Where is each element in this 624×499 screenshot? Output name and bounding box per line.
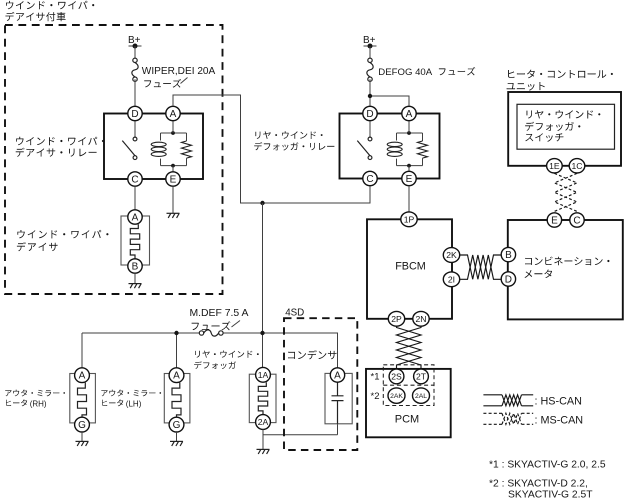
ground (mirror RH) xyxy=(76,441,89,446)
wire: wiper relay A to defog relay C feed xyxy=(173,95,370,203)
pin A (mirror RH) xyxy=(75,368,90,383)
wire B to ground xyxy=(134,273,136,283)
pin 1C xyxy=(569,159,585,173)
module box: combination meter xyxy=(508,220,623,319)
svg-text:A: A xyxy=(406,109,413,120)
svg-text:A: A xyxy=(79,371,86,382)
svg-text:SKYACTIV-G 2.5T: SKYACTIV-G 2.5T xyxy=(508,489,593,499)
svg-text:WIPER,DEI 20A: WIPER,DEI 20A xyxy=(142,66,216,77)
capacitor: condenser xyxy=(325,373,352,423)
svg-text:2T: 2T xyxy=(416,371,427,381)
pin C (meter) xyxy=(570,213,584,227)
pin E (defog relay) xyxy=(402,171,416,185)
pin 2P xyxy=(388,311,404,326)
svg-text:D: D xyxy=(131,109,138,120)
ground (wiper relay E) xyxy=(167,213,180,218)
svg-text:A: A xyxy=(334,371,341,382)
svg-text:1A: 1A xyxy=(258,370,269,380)
relay switch contacts xyxy=(122,137,137,159)
svg-text:A: A xyxy=(173,371,180,382)
svg-text:2N: 2N xyxy=(416,314,427,324)
wire 2A to ground and condenser xyxy=(263,424,338,449)
label: heater control unit xyxy=(507,70,613,91)
wire E to ground xyxy=(172,186,174,213)
pin A (defog relay) xyxy=(402,106,416,120)
label: M.DEF 7.5 A fuse xyxy=(190,308,249,330)
svg-text:: MS-CAN: : MS-CAN xyxy=(535,414,584,426)
dashed enclosure: 4SD xyxy=(284,318,357,450)
ground (rear defogger) xyxy=(257,449,270,454)
junction node (LH heater) xyxy=(174,331,178,335)
relay coil and resistor U1 xyxy=(135,121,192,172)
module box: heater control unit xyxy=(508,92,621,166)
relay coil and resistor U2 xyxy=(370,121,428,172)
pin 2K xyxy=(443,248,459,263)
wire G to ground (RH) xyxy=(81,432,83,441)
svg-text:C: C xyxy=(131,175,138,186)
svg-text:1P: 1P xyxy=(404,214,415,224)
svg-text:2I: 2I xyxy=(448,274,455,284)
pin G (mirror RH) xyxy=(75,417,90,432)
junction node xyxy=(260,201,264,205)
svg-text:*2 : SKYACTIV-D 2.2,: *2 : SKYACTIV-D 2.2, xyxy=(489,478,588,489)
svg-text:*1: *1 xyxy=(371,372,380,383)
pin C (wiper relay) xyxy=(128,172,142,186)
pin 2AL xyxy=(413,388,430,403)
wire E to 1P xyxy=(408,186,410,212)
wire C to deicer A xyxy=(134,186,136,210)
pin D (wiper relay) xyxy=(128,106,142,120)
wire: junction down to defogger feed xyxy=(262,203,264,333)
pin A (mirror LH) xyxy=(169,368,184,383)
pin 2N xyxy=(413,311,429,326)
pin B (wiper deicer) xyxy=(128,259,142,273)
svg-text:: HS-CAN: : HS-CAN xyxy=(535,396,582,408)
pin D (defog relay) xyxy=(363,106,377,120)
pin 2S xyxy=(389,369,404,384)
wire fuse to D xyxy=(134,79,136,106)
fuse M.DEF 7.5A xyxy=(199,330,223,336)
svg-text:2AL: 2AL xyxy=(415,393,427,400)
svg-text:1C: 1C xyxy=(572,161,583,171)
svg-text:M.DEF 7.5 A: M.DEF 7.5 A xyxy=(190,308,249,319)
wire G to ground (LH) xyxy=(176,432,178,441)
heater element: outer mirror heater LH xyxy=(164,374,190,423)
svg-text:FBCM: FBCM xyxy=(395,260,426,272)
ground (mirror LH) xyxy=(170,441,183,446)
module box: PCM xyxy=(366,369,451,437)
pin E (meter) xyxy=(547,213,561,227)
heater element: rear window defogger xyxy=(249,374,276,422)
svg-text:E: E xyxy=(406,174,413,185)
svg-text:B: B xyxy=(505,250,512,261)
legend: HS-CAN symbol xyxy=(483,395,581,408)
pin D (meter) xyxy=(501,272,515,286)
label: rear window defogger switch xyxy=(525,110,600,142)
pin A (wiper relay) xyxy=(166,106,180,120)
junction node (defogger) xyxy=(260,331,264,335)
legend: MS-CAN symbol xyxy=(483,413,583,426)
svg-text:E: E xyxy=(551,216,558,227)
label: window wiper deicer relay xyxy=(16,137,104,157)
pin A (condenser) xyxy=(330,368,344,382)
HS-CAN twisted pair FBCM to meter xyxy=(460,255,502,279)
MS-CAN twisted pair switch to meter xyxy=(554,173,577,212)
pin G (mirror LH) xyxy=(169,417,184,432)
svg-text:G: G xyxy=(78,420,86,431)
relay switch contacts (defog) xyxy=(357,137,372,159)
heater element: outer mirror heater RH xyxy=(70,374,96,423)
svg-text:C: C xyxy=(573,216,580,227)
svg-text:PCM: PCM xyxy=(395,414,419,426)
svg-text:D: D xyxy=(505,275,512,286)
module box: FBCM xyxy=(367,219,452,318)
fuse WIPER,DEI 20A xyxy=(132,58,138,81)
svg-text:B: B xyxy=(132,262,139,273)
label: outer mirror heater LH xyxy=(101,390,161,409)
relay box: rear window defogger relay xyxy=(340,114,440,179)
svg-text:2A: 2A xyxy=(258,417,269,427)
pin 1P xyxy=(401,212,417,227)
svg-text:(LH): (LH) xyxy=(126,399,142,408)
svg-text:A: A xyxy=(170,109,177,120)
fuse DEFOG 40A xyxy=(367,58,373,81)
label: rear window defogger xyxy=(194,351,259,370)
label: outer mirror heater RH xyxy=(5,390,65,409)
svg-text:2AK: 2AK xyxy=(390,393,403,400)
svg-text:1E: 1E xyxy=(549,161,560,171)
HS-CAN twisted pair FBCM to PCM xyxy=(397,326,422,369)
wire B+ to fuse xyxy=(134,46,136,58)
svg-text:4SD: 4SD xyxy=(285,307,304,318)
svg-text:A: A xyxy=(132,213,139,224)
switch box: rear window defogger switch xyxy=(517,104,615,149)
svg-text:2S: 2S xyxy=(391,371,402,381)
svg-text:D: D xyxy=(366,109,373,120)
pin E (wiper relay) xyxy=(166,172,180,186)
svg-text:*1 : SKYACTIV-G 2.0, 2.5: *1 : SKYACTIV-G 2.0, 2.5 xyxy=(489,459,606,470)
heater element: window wiper deicer xyxy=(121,216,150,265)
dashed pin group box xyxy=(383,365,434,406)
pin 2T xyxy=(414,369,429,384)
pin 1A xyxy=(256,367,271,382)
svg-text:2K: 2K xyxy=(446,250,457,260)
label: WIPER,DEI 20A fuse xyxy=(142,66,216,88)
pin 1E xyxy=(547,159,563,173)
svg-text:E: E xyxy=(170,175,177,186)
wire fuse to relay, branch to A xyxy=(368,79,409,106)
node B+ (defog) xyxy=(363,35,377,49)
dashed enclosure: wiper deicer option xyxy=(5,25,223,294)
node B+ (wiper) xyxy=(128,35,142,49)
relay box: window wiper deicer relay xyxy=(104,114,203,180)
wire: defogger feed bus xyxy=(82,333,338,368)
label: rear window defogger relay xyxy=(254,131,334,150)
label: combination meter xyxy=(525,257,610,278)
note *2 SKYACTIV-D xyxy=(489,478,593,499)
label: DEFOG 40A fuse xyxy=(378,67,475,78)
svg-text:2P: 2P xyxy=(391,314,402,324)
pin C (defog relay) xyxy=(363,171,377,185)
svg-text:G: G xyxy=(173,420,181,431)
pin A (wiper deicer) xyxy=(128,210,142,224)
pin 2AK xyxy=(388,388,405,403)
pin 2I xyxy=(443,272,459,287)
svg-text:C: C xyxy=(366,174,373,185)
label: wiper deicer equipped car title xyxy=(5,1,94,21)
pin 2A xyxy=(256,415,271,430)
label: window wiper deicer xyxy=(17,230,109,251)
svg-text:DEFOG 40A: DEFOG 40A xyxy=(378,67,432,78)
label: condenser xyxy=(288,350,337,359)
svg-text:(RH): (RH) xyxy=(30,399,47,408)
ground (wiper deicer) xyxy=(129,284,142,289)
pin B (meter) xyxy=(501,247,515,261)
svg-text:*2: *2 xyxy=(371,391,380,402)
wire B+ to fuse xyxy=(369,46,371,58)
